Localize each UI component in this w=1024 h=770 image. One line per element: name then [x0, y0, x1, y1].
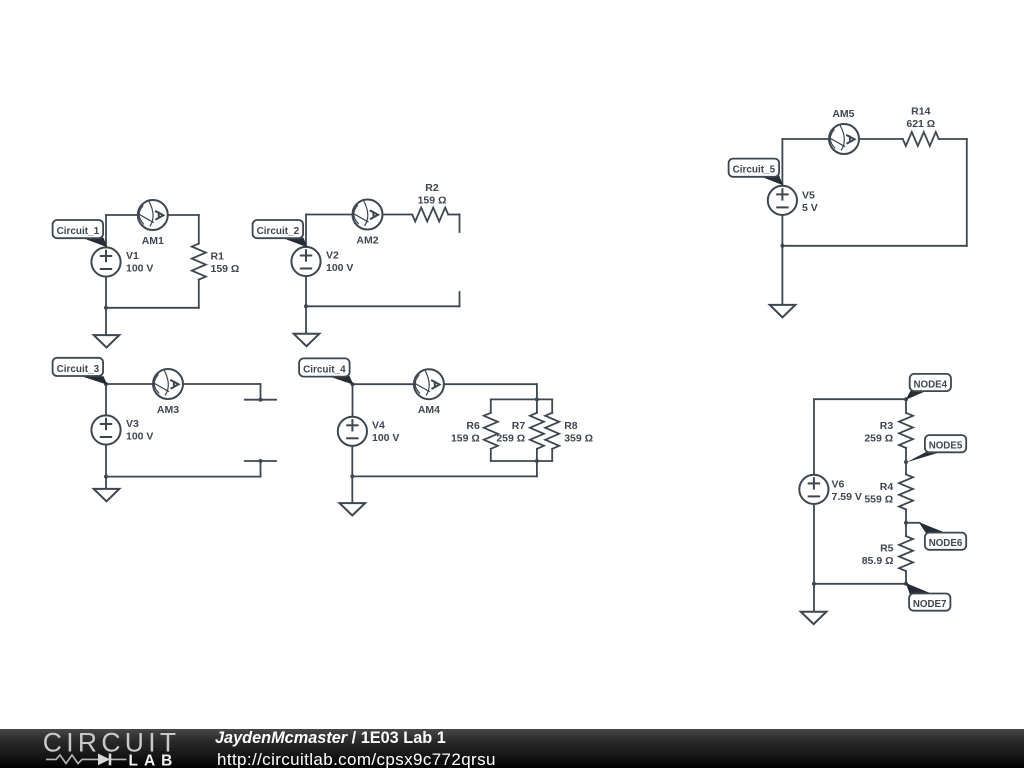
- wire to ground: [781, 246, 783, 305]
- wire down to parallel rail: [536, 384, 538, 399]
- svg-text:7.59 V: 7.59 V: [832, 491, 862, 503]
- wire R2 right: [448, 214, 459, 216]
- svg-text:159 Ω: 159 Ω: [451, 433, 480, 445]
- wire top left: [306, 214, 353, 216]
- wire R4 to NODE6: [905, 509, 907, 536]
- ammeter AM1: [138, 200, 168, 230]
- svg-text:100 V: 100 V: [126, 431, 153, 443]
- wire to ground: [105, 477, 107, 489]
- ground: [801, 612, 827, 624]
- ground: [294, 334, 320, 346]
- svg-text:R1: R1: [211, 251, 225, 263]
- R6 branch top: [490, 399, 492, 412]
- wire top left: [782, 138, 828, 140]
- wire V6 bottom: [813, 504, 815, 584]
- node NODE4: [904, 397, 908, 401]
- svg-text:359 Ω: 359 Ω: [564, 433, 593, 445]
- svg-text:5 V: 5 V: [802, 202, 818, 214]
- node: [351, 382, 355, 386]
- ammeter AM2: [353, 200, 383, 230]
- wire AM1 to R1: [168, 214, 199, 216]
- wire corner down: [260, 384, 262, 400]
- svg-text:259 Ω: 259 Ω: [496, 433, 525, 445]
- open terminal stub top: [245, 399, 276, 401]
- resistor R14: [903, 132, 939, 146]
- svg-text:R4: R4: [880, 481, 894, 493]
- node: [104, 382, 108, 386]
- svg-text:100 V: 100 V: [326, 262, 353, 274]
- svg-text:R7: R7: [512, 420, 526, 432]
- node junction: [304, 304, 308, 308]
- ammeter AM4: [414, 369, 444, 399]
- svg-text:AM1: AM1: [142, 235, 164, 247]
- wire down from parallel: [536, 461, 538, 476]
- label NODE4: [905, 374, 951, 400]
- node junction: [104, 306, 108, 310]
- svg-text:Circuit_4: Circuit_4: [303, 363, 346, 375]
- wire AM5 to R14: [860, 138, 903, 140]
- ground: [94, 335, 120, 347]
- ground: [770, 305, 796, 317]
- voltage source V4: [338, 417, 367, 446]
- wire AM3 right: [183, 383, 261, 385]
- svg-text:R8: R8: [564, 420, 578, 432]
- svg-text:Circuit_2: Circuit_2: [257, 225, 300, 237]
- svg-text:R3: R3: [880, 420, 894, 432]
- wire AM2 to R2: [383, 214, 413, 216]
- wire bottom: [306, 305, 460, 307]
- node: [104, 475, 108, 479]
- svg-text:NODE6: NODE6: [929, 537, 963, 549]
- wire left down: [813, 399, 815, 475]
- wire V4 bottom: [351, 447, 353, 477]
- svg-text:V1: V1: [126, 250, 139, 262]
- svg-text:V6: V6: [832, 479, 845, 491]
- svg-text:100 V: 100 V: [126, 263, 153, 275]
- node: [535, 397, 539, 401]
- wire AM4 right: [444, 383, 537, 385]
- svg-text:85.9 Ω: 85.9 Ω: [862, 555, 894, 567]
- label Circuit_3: [53, 358, 108, 385]
- svg-text:159 Ω: 159 Ω: [418, 195, 447, 207]
- wire V3 bottom: [105, 445, 107, 477]
- node: [259, 398, 263, 402]
- wire R3 to NODE5: [905, 448, 907, 475]
- wire bottom: [106, 476, 261, 478]
- label NODE5: [907, 435, 967, 462]
- R8 branch bottom: [551, 449, 553, 461]
- svg-text:159 Ω: 159 Ω: [211, 263, 240, 275]
- resistor R8: [545, 413, 559, 449]
- R7 branch bottom: [536, 449, 538, 461]
- svg-text:AM5: AM5: [832, 108, 854, 120]
- resistor R7: [530, 413, 544, 449]
- svg-text:AM4: AM4: [418, 404, 440, 416]
- R7 branch top: [536, 399, 538, 412]
- svg-text:V4: V4: [372, 420, 385, 432]
- wire V4 top: [352, 384, 354, 416]
- wire bottom: [814, 583, 906, 585]
- resistor R2: [412, 208, 448, 222]
- resistor R1: [192, 244, 206, 280]
- wire stub lower right: [459, 292, 461, 306]
- ground: [340, 503, 366, 515]
- voltage source V3: [91, 415, 120, 444]
- label Circuit_2: [253, 220, 308, 247]
- resistor R6: [484, 413, 498, 449]
- node: [350, 474, 354, 478]
- wire to ground: [305, 306, 307, 334]
- ammeter AM3: [153, 369, 183, 399]
- wire top left: [106, 383, 153, 385]
- svg-text:100 V: 100 V: [372, 432, 399, 444]
- wire stub down: [459, 215, 461, 233]
- wire R5 to bottom: [905, 571, 907, 584]
- bottom share bar: [0, 729, 1024, 768]
- svg-text:R6: R6: [466, 420, 480, 432]
- svg-text:AM2: AM2: [356, 235, 378, 247]
- resistor R3: [899, 413, 913, 448]
- wire V2 top to corner: [305, 215, 307, 247]
- node: [535, 459, 539, 463]
- wire V2 bottom: [305, 276, 307, 306]
- svg-text:Circuit_3: Circuit_3: [57, 363, 100, 375]
- wire V3 top: [105, 384, 107, 415]
- svg-text:559 Ω: 559 Ω: [864, 494, 893, 506]
- wire stub to bottom rail: [260, 461, 262, 477]
- wire top left: [106, 214, 138, 216]
- node junction: [780, 244, 784, 248]
- voltage source V5: [768, 186, 797, 215]
- svg-text:R5: R5: [880, 543, 894, 555]
- wire V1 top to corner: [105, 215, 107, 247]
- parallel top rail: [491, 398, 552, 400]
- wire V5 top to corner: [781, 139, 783, 186]
- R8 branch top: [551, 399, 553, 412]
- label NODE7: [906, 583, 951, 611]
- ammeter AM5: [829, 124, 859, 154]
- voltage source V6: [799, 475, 828, 504]
- resistor R4: [899, 474, 913, 509]
- node junction: [812, 582, 816, 586]
- wire R1 bottom: [198, 280, 200, 308]
- svg-text:NODE7: NODE7: [913, 598, 947, 610]
- wire bottom: [106, 307, 199, 309]
- wire bottom: [782, 245, 966, 247]
- wire R14 right: [939, 138, 967, 140]
- svg-text:NODE5: NODE5: [929, 440, 963, 452]
- label Circuit_1: [53, 220, 108, 247]
- svg-text:Circuit_5: Circuit_5: [733, 164, 776, 176]
- svg-text:R2: R2: [425, 182, 439, 194]
- node NODE6: [904, 521, 908, 525]
- wire to R3: [905, 399, 907, 413]
- label Circuit_5: [729, 159, 783, 186]
- wire bottom: [352, 475, 537, 477]
- wire to ground: [813, 584, 815, 612]
- wire V1 bottom: [105, 277, 107, 308]
- R6 branch bottom: [490, 449, 492, 461]
- ground: [94, 489, 120, 501]
- svg-text:NODE4: NODE4: [914, 379, 948, 391]
- resistor R5: [899, 536, 913, 571]
- wire down to R1: [198, 215, 200, 244]
- node NODE5: [904, 460, 908, 464]
- wire right down: [966, 139, 968, 246]
- voltage source V2: [291, 247, 320, 276]
- wire V5 bottom: [781, 216, 783, 246]
- svg-text:621 Ω: 621 Ω: [906, 118, 935, 130]
- svg-text:V5: V5: [802, 189, 815, 201]
- svg-text:V3: V3: [126, 418, 139, 430]
- wire top left: [353, 383, 414, 385]
- voltage source V1: [91, 247, 120, 276]
- svg-text:Circuit_1: Circuit_1: [57, 225, 100, 237]
- svg-text:V2: V2: [326, 250, 339, 262]
- node NODE7: [904, 582, 908, 586]
- svg-text:AM3: AM3: [157, 404, 179, 416]
- label NODE6: [906, 522, 966, 550]
- wire top: [814, 398, 906, 400]
- label Circuit_4: [299, 358, 353, 384]
- svg-text:R14: R14: [911, 106, 930, 118]
- open terminal stub bottom: [245, 460, 276, 462]
- svg-text:LAB: LAB: [129, 753, 179, 769]
- svg-text:259 Ω: 259 Ω: [864, 432, 893, 444]
- wire to ground: [105, 308, 107, 335]
- wire to ground: [351, 476, 353, 503]
- parallel bottom rail: [491, 460, 552, 462]
- node: [259, 459, 263, 463]
